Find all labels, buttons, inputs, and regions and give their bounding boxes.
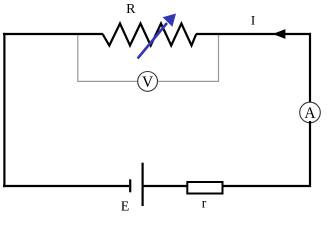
svg-text:A: A: [304, 105, 316, 122]
svg-text:I: I: [251, 13, 255, 28]
wire: left side: [3, 33, 5, 187]
voltmeter V: [138, 72, 158, 92]
resistor r (box): [187, 182, 222, 194]
battery E: long plate (+): [142, 163, 144, 206]
voltmeter branch wire (gray bracket): [78, 34, 219, 81]
wire: right side (upper): [309, 33, 311, 104]
wire: battery to resistor r: [143, 185, 187, 187]
svg-text:V: V: [142, 74, 154, 91]
wire: bottom right segment: [223, 185, 311, 187]
svg-text:R: R: [126, 2, 136, 17]
ammeter A: [300, 102, 321, 123]
svg-text:r: r: [202, 196, 207, 211]
svg-text:E: E: [121, 200, 130, 215]
resistor R (variable, zigzag): [103, 24, 197, 46]
wire: bottom left segment: [3, 185, 129, 187]
wire: top left segment: [3, 33, 103, 35]
wire: right side (lower): [309, 121, 311, 187]
variable-resistor blue arrow: [138, 14, 176, 59]
current direction arrowhead: [273, 29, 286, 39]
battery E: short plate (-): [129, 179, 131, 192]
wire: top right segment: [196, 33, 311, 35]
